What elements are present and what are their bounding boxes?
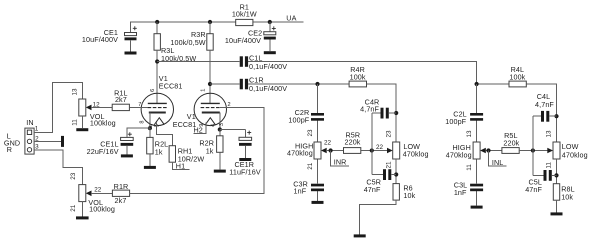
capacitor C5R	[372, 174, 396, 176]
svg-text:R1R: R1R	[114, 182, 129, 191]
svg-text:H2: H2	[194, 125, 203, 134]
svg-text:21: 21	[307, 162, 314, 170]
potentiometer VOL (left channel)	[79, 99, 86, 116]
wire	[172, 162, 189, 169]
svg-text:11: 11	[466, 164, 473, 171]
wire	[371, 113, 373, 175]
wire	[489, 151, 507, 166]
svg-text:ECC81: ECC81	[159, 82, 183, 91]
svg-text:22: 22	[376, 144, 384, 151]
svg-text:100klog: 100klog	[90, 119, 116, 128]
node C5R right	[394, 172, 398, 176]
resistor R1L	[112, 104, 129, 110]
node C4L right	[554, 114, 558, 118]
wire	[91, 106, 112, 108]
capacitor C4L	[533, 115, 557, 117]
svg-text:100k/0,5W: 100k/0,5W	[170, 38, 205, 47]
svg-text:220k: 220k	[345, 137, 361, 146]
svg-text:1k: 1k	[206, 146, 214, 155]
svg-text:2k7: 2k7	[115, 196, 127, 205]
svg-text:1nF: 1nF	[294, 186, 307, 195]
svg-text:100k: 100k	[509, 73, 525, 82]
ground	[354, 234, 366, 237]
resistor R8L	[553, 184, 559, 201]
ground	[471, 206, 483, 209]
ground	[125, 52, 137, 55]
svg-text:10uF/400V: 10uF/400V	[82, 35, 118, 44]
svg-text:IN: IN	[26, 118, 33, 127]
svg-text:13: 13	[72, 88, 79, 96]
wire	[81, 116, 83, 128]
svg-text:100pF: 100pF	[445, 117, 466, 126]
svg-text:21: 21	[70, 204, 77, 212]
ground	[312, 201, 324, 204]
wire B+ rail	[131, 22, 270, 33]
svg-text:23: 23	[70, 172, 77, 180]
svg-text:4,7nF: 4,7nF	[535, 100, 554, 109]
svg-text:INL: INL	[492, 158, 504, 167]
ground	[551, 212, 563, 215]
wire	[219, 113, 221, 130]
wire	[248, 83, 349, 85]
resistor R5L	[502, 148, 519, 154]
svg-text:1: 1	[35, 126, 39, 133]
svg-text:6: 6	[150, 89, 156, 92]
svg-text:100k: 100k	[350, 73, 366, 82]
svg-text:0,1uF/400V: 0,1uF/400V	[249, 84, 287, 93]
svg-text:11uF/16V: 11uF/16V	[229, 167, 261, 176]
node HIGH-R top	[315, 82, 319, 86]
svg-text:23: 23	[307, 129, 314, 137]
capacitor C1R	[240, 79, 243, 90]
wire	[556, 200, 558, 212]
svg-text:UA: UA	[286, 14, 296, 23]
svg-text:470klog: 470klog	[287, 149, 313, 158]
wire C1L to left channel tone	[248, 62, 477, 85]
svg-text:470klog: 470klog	[446, 150, 472, 159]
svg-text:470klog: 470klog	[562, 150, 588, 159]
ground	[239, 158, 251, 161]
ground	[121, 154, 133, 157]
op-amp V1 triode a (ECC81 left)	[141, 93, 173, 125]
svg-text:1k: 1k	[155, 148, 163, 157]
wire HIGH-L column	[476, 84, 478, 206]
potentiometer HIGH (left channel)	[473, 142, 480, 159]
svg-text:13: 13	[546, 130, 553, 138]
wire	[361, 150, 387, 152]
wire	[209, 50, 211, 103]
wire	[395, 159, 397, 184]
node C5L right	[554, 173, 558, 177]
connector IN	[25, 128, 34, 154]
node INL	[486, 148, 490, 152]
wire	[486, 150, 502, 152]
wire HIGH-R column	[317, 84, 319, 201]
svg-text:10k: 10k	[561, 192, 573, 201]
wire	[156, 123, 172, 146]
svg-text:5: 5	[155, 124, 161, 127]
svg-text:8: 8	[139, 120, 145, 123]
wire	[519, 150, 547, 152]
svg-text:4: 4	[211, 124, 217, 127]
svg-text:H1: H1	[176, 161, 185, 170]
svg-text:22uF/16V: 22uF/16V	[87, 147, 119, 156]
capacitor CE1	[125, 33, 137, 36]
ground	[264, 51, 276, 54]
wire	[219, 152, 221, 169]
ground	[76, 128, 88, 131]
capacitor CE2	[269, 22, 271, 51]
svg-text:100pF: 100pF	[288, 116, 309, 125]
svg-text:2k7: 2k7	[115, 95, 127, 104]
wire	[81, 202, 83, 217]
resistor R4R	[349, 81, 366, 87]
capacitor C2R	[311, 113, 324, 116]
node LOW-L wiper	[531, 148, 535, 152]
svg-text:47nF: 47nF	[525, 185, 542, 194]
resistor R1	[236, 19, 253, 25]
svg-text:21: 21	[385, 161, 392, 169]
wire R4L right	[526, 84, 556, 142]
svg-text:11: 11	[72, 119, 79, 126]
svg-text:220k: 220k	[503, 139, 519, 148]
wire	[127, 128, 150, 137]
wire	[209, 22, 211, 34]
svg-text:0,1uF/400V: 0,1uF/400V	[249, 62, 287, 71]
svg-text:10k/1W: 10k/1W	[232, 10, 257, 19]
potentiometer HIGH (right channel)	[314, 142, 321, 159]
wire	[210, 83, 240, 85]
svg-text:470klog: 470klog	[403, 150, 429, 159]
svg-text:R: R	[7, 145, 12, 154]
potentiometer LOW (left channel)	[553, 142, 560, 159]
op-amp V1 triode b (ECC81 right)	[194, 93, 226, 125]
svg-text:47nF: 47nF	[364, 185, 381, 194]
capacitor C5L	[533, 174, 557, 176]
wire	[360, 200, 397, 234]
wire	[149, 128, 151, 137]
node anode-b / C1R tap	[208, 82, 212, 86]
svg-text:22: 22	[324, 139, 332, 146]
node cathode-a	[148, 126, 152, 130]
wire	[326, 150, 344, 152]
ground	[144, 166, 156, 169]
capacitor C1L	[240, 56, 243, 67]
node HIGH-L top	[475, 82, 479, 86]
svg-text:4,7nF: 4,7nF	[360, 104, 379, 113]
svg-text:23: 23	[385, 130, 392, 138]
svg-text:INR: INR	[334, 157, 347, 166]
potentiometer LOW (right channel)	[393, 142, 400, 159]
capacitor C3L	[470, 184, 483, 187]
wire	[556, 159, 558, 184]
svg-text:1nF: 1nF	[454, 188, 467, 197]
wire	[129, 106, 147, 108]
capacitor C3R	[311, 184, 324, 187]
wire	[220, 129, 246, 131]
wire	[34, 150, 82, 185]
wire	[219, 130, 221, 136]
wire	[532, 116, 534, 175]
svg-text:11: 11	[546, 162, 553, 169]
capacitor C2L	[470, 113, 483, 116]
wire	[156, 50, 158, 103]
node UA	[270, 21, 304, 23]
svg-text:100klog: 100klog	[89, 205, 115, 214]
ground IN	[61, 136, 64, 147]
node LOW-R wiper	[370, 148, 374, 152]
resistor R6	[393, 184, 399, 201]
capacitor C4R	[372, 112, 396, 114]
wire	[157, 61, 240, 63]
ground	[76, 216, 89, 219]
wire	[193, 123, 206, 134]
junction	[208, 20, 212, 24]
wire	[149, 154, 151, 166]
node C4R right	[394, 111, 398, 115]
wire	[156, 22, 158, 34]
wire	[130, 108, 265, 194]
wire	[34, 140, 61, 142]
wire	[149, 113, 151, 129]
junction	[155, 20, 159, 24]
wire	[331, 151, 349, 166]
svg-text:1: 1	[200, 89, 206, 92]
capacitor CE1R	[244, 130, 246, 138]
node INR	[329, 148, 333, 152]
resistor RH1	[169, 146, 175, 163]
svg-text:13: 13	[466, 130, 473, 138]
node cathode-b	[218, 127, 222, 131]
node anode-a / C1L tap	[155, 59, 159, 63]
resistor R1R	[112, 190, 129, 196]
junction	[268, 20, 272, 24]
svg-text:10uF/400V: 10uF/400V	[225, 36, 261, 45]
potentiometer VOL (right channel)	[79, 185, 86, 202]
wire	[91, 192, 112, 194]
wire R4R right	[367, 84, 397, 142]
wire	[477, 83, 509, 85]
ground	[214, 170, 226, 173]
resistor R5R	[344, 148, 361, 154]
svg-text:22: 22	[94, 187, 102, 194]
wire	[34, 83, 82, 133]
capacitor CE1L	[121, 137, 134, 140]
svg-text:10k: 10k	[403, 191, 415, 200]
resistor R4L	[509, 81, 526, 87]
